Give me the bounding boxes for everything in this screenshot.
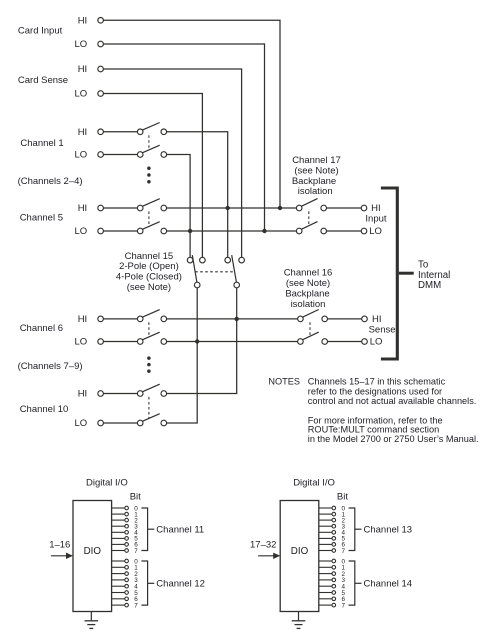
svg-text:HI: HI: [78, 64, 88, 75]
junction sense HI bus / channel 6 row: [235, 317, 239, 321]
svg-text:7: 7: [134, 602, 138, 609]
svg-text:LO: LO: [75, 150, 88, 161]
notes paragraph 2: [308, 416, 479, 444]
wire channel 1 LO terminal to switch: [103, 154, 137, 156]
svg-text:Card Sense: Card Sense: [18, 75, 68, 86]
mechanical link channel 1: [148, 135, 150, 150]
junction sense LO bus / channel 6 row: [195, 339, 199, 343]
pin bit 0 of Channel 12: [112, 560, 125, 562]
switch channel 6 LO pole: [137, 339, 143, 345]
wire channel 1 HI to HI bus: [167, 132, 228, 257]
ellipsis channels 2-4: [147, 167, 151, 171]
svg-text:Channel 13: Channel 13: [364, 524, 413, 535]
bracket tick Channel 14: [355, 582, 362, 584]
pin bit 3 of Channel 11: [112, 525, 125, 527]
switch channel 5 LO throw: [161, 228, 167, 234]
pin bit 1 of Channel 13: [319, 513, 332, 515]
channel 5 LO terminal: [98, 228, 104, 234]
switch channel 16 LO blade: [303, 332, 319, 340]
switch channel 5 LO blade: [142, 222, 159, 230]
wire channel 10 HI to sense HI bus: [167, 319, 237, 394]
wire channel 10 LO to sense LO bus: [167, 342, 198, 424]
switch channel 5 HI throw: [161, 205, 167, 211]
svg-text:HI: HI: [78, 15, 88, 26]
switch channel 1 LO blade: [142, 145, 159, 153]
svg-text:control and not actual availab: control and not actual available channel…: [308, 396, 477, 406]
switch channel 10 LO throw: [161, 420, 167, 426]
node Card Sense HI terminal: [98, 66, 104, 72]
mechanical link channel 5: [148, 211, 150, 226]
pin bit 4 of Channel 12: [112, 585, 125, 587]
channel 10 HI terminal: [98, 391, 104, 397]
switch channel 10 LO blade: [142, 414, 159, 422]
junction LO bus / channel 5 row: [188, 229, 192, 233]
node Sense HI terminal: [362, 316, 368, 322]
svg-text:LO: LO: [75, 418, 88, 429]
svg-text:DIO: DIO: [84, 546, 102, 557]
switch channel 6 HI blade: [142, 310, 159, 318]
channel 10 LO terminal: [98, 420, 104, 426]
arrow 17&#8211;32 into DIO: [258, 555, 275, 557]
channel 5 HI terminal: [98, 205, 104, 211]
channel 1 LO terminal: [98, 152, 104, 158]
pin bit 5 of Channel 13: [319, 537, 332, 539]
svg-text:(Channels 2–4): (Channels 2–4): [18, 176, 83, 187]
switch channel 15 HI pole: [234, 282, 240, 288]
switch channel 17 LO blade: [301, 222, 317, 230]
switch channel 17 LO pole: [296, 228, 302, 234]
bracket Channel 12: [141, 561, 147, 605]
pin bit 7 of Channel 14: [319, 604, 332, 606]
bracket Channel 13: [349, 508, 355, 551]
bracket tick: [399, 272, 414, 275]
wire channel 10 HI terminal to switch: [103, 393, 137, 395]
switch channel 16 HI blade: [303, 310, 319, 318]
pin bit 6 of Channel 11: [112, 543, 125, 545]
pin bit 3 of Channel 12: [112, 579, 125, 581]
switch channel 1 HI pole: [137, 129, 143, 135]
bracket to internal DMM: [381, 188, 397, 359]
svg-text:DMM: DMM: [418, 280, 441, 291]
pin bit 5 of Channel 12: [112, 592, 125, 594]
channel 6 HI terminal: [98, 316, 104, 322]
wire channel 6 HI terminal to switch: [103, 318, 137, 320]
arrow 1&#8211;16 into DIO: [51, 555, 68, 557]
svg-text:isolation: isolation: [291, 299, 326, 310]
wire channel 16 LO output: [328, 341, 362, 343]
pin bit 4 of Channel 11: [112, 531, 125, 533]
svg-text:LO: LO: [370, 337, 383, 348]
switch channel 6 HI pole: [137, 316, 143, 322]
svg-text:Channels 15–17 in this schemat: Channels 15–17 in this schematic: [308, 377, 446, 387]
wire channel 6 HI row to Channel 16 pole: [167, 318, 298, 320]
pin bit 0 of Channel 14: [319, 560, 332, 562]
svg-text:Input: Input: [365, 213, 386, 224]
pin bit 6 of Channel 13: [319, 543, 332, 545]
svg-text:HI: HI: [372, 314, 382, 325]
svg-text:LO: LO: [75, 337, 88, 348]
wire channel 17 HI output: [327, 207, 362, 209]
svg-text:LO: LO: [369, 226, 382, 237]
pin bit 2 of Channel 13: [319, 519, 332, 521]
wire Card Sense LO to Channel 15: [103, 94, 202, 258]
pin bit 0 of Channel 13: [319, 507, 332, 509]
mechanical link channel 16: [309, 322, 311, 337]
node Input LO terminal: [361, 228, 367, 234]
svg-text:refer to the designations used: refer to the designations used for: [308, 386, 442, 396]
switch channel 1 LO throw: [161, 152, 167, 158]
svg-text:HI: HI: [78, 203, 88, 214]
switch channel 15 contact LO bus: [187, 257, 193, 263]
junction card input HI / channel 17: [278, 206, 282, 210]
svg-text:HI: HI: [78, 127, 88, 138]
pin bit 2 of Channel 12: [112, 573, 125, 575]
svg-text:DIO: DIO: [291, 546, 309, 557]
wire channel 1 LO to LO bus: [167, 155, 191, 258]
svg-text:Channel 14: Channel 14: [364, 578, 413, 589]
svg-text:Card Input: Card Input: [18, 26, 63, 37]
switch channel 15 contact HI bus: [225, 257, 231, 263]
node Card Input LO terminal: [98, 41, 104, 47]
svg-text:Bit: Bit: [337, 491, 348, 502]
svg-text:in the Model 2700 or 2750 User: in the Model 2700 or 2750 User’s Manual.: [308, 434, 479, 444]
pin bit 4 of Channel 13: [319, 531, 332, 533]
svg-text:Digital I/O: Digital I/O: [86, 478, 128, 489]
svg-text:Channel 1: Channel 1: [20, 138, 63, 149]
svg-text:Channel 11: Channel 11: [156, 524, 204, 535]
node Sense LO terminal: [362, 339, 368, 345]
svg-text:NOTES: NOTES: [268, 377, 300, 387]
switch channel 17 HI throw: [321, 205, 327, 211]
mechanical link channel 6: [148, 322, 150, 337]
wire Card Input LO to Channel 17 LO: [103, 44, 264, 231]
pin bit 2 of Channel 14: [319, 573, 332, 575]
bracket tick Channel 12: [148, 582, 155, 584]
node Input HI terminal: [361, 205, 367, 211]
wire channel 5 HI terminal to switch: [103, 207, 137, 209]
wire sense HI bus: [236, 288, 238, 319]
svg-text:Internal: Internal: [418, 270, 450, 281]
svg-text:Channel 6: Channel 6: [20, 323, 63, 334]
wire Card Sense HI to Channel 15: [103, 69, 241, 257]
svg-text:Channel 12: Channel 12: [156, 578, 205, 589]
switch channel 6 LO blade: [142, 332, 159, 340]
switch channel 17 HI pole: [296, 205, 302, 211]
svg-text:(see Note): (see Note): [294, 165, 338, 176]
notes paragraph 1: [308, 377, 477, 406]
channel 1 HI terminal: [98, 129, 104, 135]
wire channel 5 LO row to Channel 17 pole: [167, 230, 297, 232]
switch channel 10 HI throw: [161, 391, 167, 397]
svg-text:7: 7: [341, 602, 345, 609]
junction card input LO / channel 17: [262, 229, 266, 233]
wire channel 17 LO output: [327, 230, 362, 232]
pin bit 6 of Channel 12: [112, 598, 125, 600]
svg-text:Digital I/O: Digital I/O: [293, 478, 335, 489]
svg-text:Backplane: Backplane: [285, 289, 329, 300]
svg-text:Backplane: Backplane: [292, 176, 336, 187]
wire sense LO bus: [196, 288, 198, 342]
pin bit 7 of Channel 12: [112, 604, 125, 606]
svg-text:LO: LO: [75, 89, 88, 100]
pin bit 1 of Channel 14: [319, 566, 332, 568]
pin bit 5 of Channel 14: [319, 592, 332, 594]
wire channel 16 HI output: [328, 318, 362, 320]
switch channel 6 LO throw: [161, 339, 167, 345]
svg-text:Channel 17: Channel 17: [292, 155, 341, 166]
wire channel 1 HI terminal to switch: [103, 131, 137, 133]
wire channel 5 HI row to Channel 17 pole: [167, 207, 297, 209]
switch channel 17 HI blade: [301, 199, 317, 207]
switch channel 16 HI throw: [322, 316, 328, 322]
switch channel 10 HI blade: [142, 384, 159, 392]
mechanical link channel 15: [195, 271, 233, 273]
svg-text:(see Note): (see Note): [127, 282, 171, 293]
svg-text:Bit: Bit: [130, 491, 141, 502]
switch channel 1 LO pole: [137, 152, 143, 158]
bracket tick Channel 13: [355, 528, 362, 530]
pin bit 7 of Channel 11: [112, 550, 125, 552]
switch channel 5 HI blade: [142, 199, 159, 207]
wire channel 6 LO terminal to switch: [103, 341, 137, 343]
pin bit 4 of Channel 14: [319, 585, 332, 587]
bracket tick Channel 11: [148, 528, 155, 530]
node Card Input HI terminal: [98, 18, 104, 24]
svg-text:(Channels 7–9): (Channels 7–9): [18, 361, 83, 372]
channel 6 LO terminal: [98, 339, 104, 345]
svg-text:HI: HI: [78, 314, 88, 325]
svg-text:LO: LO: [75, 226, 88, 237]
svg-text:(see Note): (see Note): [286, 278, 330, 289]
pin bit 0 of Channel 11: [112, 507, 125, 509]
svg-text:17–32: 17–32: [250, 539, 276, 550]
pin bit 1 of Channel 12: [112, 566, 125, 568]
switch channel 5 HI pole: [137, 205, 143, 211]
svg-text:7: 7: [341, 548, 345, 555]
pin bit 6 of Channel 14: [319, 598, 332, 600]
pin bit 5 of Channel 11: [112, 537, 125, 539]
mechanical link channel 10: [148, 397, 150, 419]
ground 1&#8211;16: [85, 612, 99, 629]
wire channel 6 LO row to Channel 16 pole: [167, 341, 298, 343]
ellipsis channels 7-9: [147, 356, 151, 360]
svg-text:HI: HI: [78, 389, 88, 400]
switch channel 15 HI blade: [232, 255, 237, 282]
switch channel 16 LO pole: [298, 339, 304, 345]
pin bit 3 of Channel 14: [319, 579, 332, 581]
switch channel 6 HI throw: [161, 316, 167, 322]
wire Card Input HI to Channel 17 HI: [103, 20, 280, 208]
switch channel 1 HI blade: [142, 123, 159, 131]
node Card Sense LO terminal: [98, 91, 104, 97]
switch channel 15 contact card sense HI: [239, 257, 245, 263]
svg-text:To: To: [418, 259, 428, 270]
switch channel 15 contact card sense LO: [200, 257, 206, 263]
svg-text:1–16: 1–16: [49, 539, 70, 550]
ground 17&#8211;32: [292, 612, 306, 629]
switch channel 10 HI pole: [137, 391, 143, 397]
switch channel 17 LO throw: [321, 228, 327, 234]
svg-text:isolation: isolation: [298, 186, 333, 197]
wire channel 5 LO terminal to switch: [103, 230, 137, 232]
DIO box 1&#8211;16: [73, 501, 112, 612]
switch channel 1 HI throw: [161, 129, 167, 135]
pin bit 1 of Channel 11: [112, 513, 125, 515]
svg-text:Channel 16: Channel 16: [284, 268, 333, 279]
switch channel 10 LO pole: [137, 420, 143, 426]
svg-text:Sense: Sense: [369, 324, 396, 335]
bracket Channel 11: [141, 508, 147, 551]
svg-text:Channel 10: Channel 10: [20, 404, 69, 415]
pin bit 3 of Channel 13: [319, 525, 332, 527]
svg-text:LO: LO: [75, 39, 88, 50]
bracket Channel 14: [349, 561, 355, 605]
label To Internal DMM: [418, 259, 450, 291]
pin bit 2 of Channel 11: [112, 519, 125, 521]
mechanical link channel 17: [308, 211, 310, 226]
wire channel 10 LO terminal to switch: [103, 422, 137, 424]
switch channel 5 LO pole: [137, 228, 143, 234]
switch channel 16 HI pole: [298, 316, 304, 322]
switch channel 15 LO pole: [194, 282, 200, 288]
switch channel 15 LO blade: [192, 255, 197, 282]
svg-text:7: 7: [134, 548, 138, 555]
pin bit 7 of Channel 13: [319, 550, 332, 552]
junction HI bus / channel 5 row: [226, 206, 230, 210]
svg-text:HI: HI: [371, 203, 381, 214]
DIO box 17&#8211;32: [280, 501, 319, 612]
switch channel 16 LO throw: [322, 339, 328, 345]
svg-text:Channel 5: Channel 5: [20, 213, 63, 224]
